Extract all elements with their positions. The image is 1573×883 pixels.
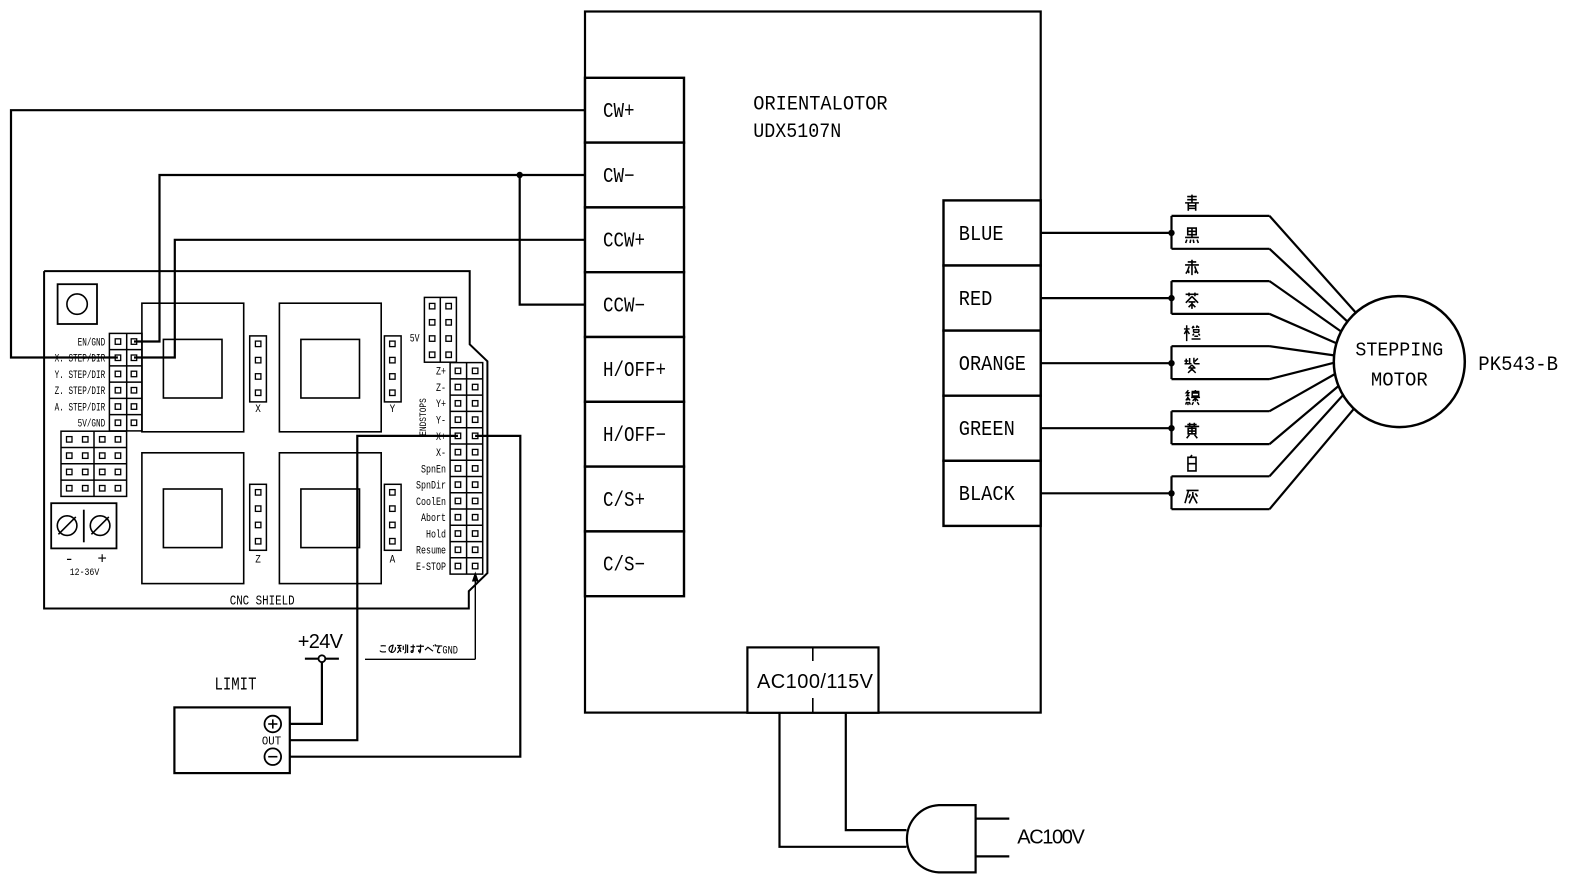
svg-text:+24V: +24V bbox=[298, 631, 344, 653]
svg-text:STEPPING: STEPPING bbox=[1355, 339, 1443, 361]
svg-text:BLUE: BLUE bbox=[959, 222, 1004, 246]
svg-text:GREEN: GREEN bbox=[959, 417, 1015, 441]
svg-text:CNC SHIELD: CNC SHIELD bbox=[230, 593, 295, 609]
svg-text:PK543-B: PK543-B bbox=[1478, 354, 1558, 377]
svg-text:CCW−: CCW− bbox=[603, 294, 645, 318]
svg-text:ORANGE: ORANGE bbox=[959, 352, 1026, 376]
svg-text:BLACK: BLACK bbox=[959, 482, 1015, 506]
svg-text:Y. STEP/DIR: Y. STEP/DIR bbox=[55, 369, 106, 382]
svg-text:12-36V: 12-36V bbox=[70, 566, 100, 578]
svg-text:H/OFF+: H/OFF+ bbox=[603, 359, 666, 383]
svg-text:H/OFF−: H/OFF− bbox=[603, 424, 666, 448]
svg-text:CW−: CW− bbox=[603, 164, 634, 188]
svg-text:Y+: Y+ bbox=[436, 398, 446, 410]
svg-text:EN/GND: EN/GND bbox=[78, 336, 106, 349]
svg-text:SpnDir: SpnDir bbox=[416, 480, 446, 492]
svg-text:AC100V: AC100V bbox=[1017, 827, 1085, 849]
svg-text:A. STEP/DIR: A. STEP/DIR bbox=[55, 401, 106, 414]
svg-text:5V/GND: 5V/GND bbox=[78, 417, 106, 430]
svg-text:X-: X- bbox=[436, 447, 446, 459]
svg-text:Z. STEP/DIR: Z. STEP/DIR bbox=[55, 385, 106, 398]
svg-text:AC100/115V: AC100/115V bbox=[757, 671, 874, 693]
svg-text:CW+: CW+ bbox=[603, 100, 634, 124]
svg-text:GND: GND bbox=[442, 644, 458, 656]
svg-text:RED: RED bbox=[959, 287, 993, 311]
svg-text:ENDSTOPS: ENDSTOPS bbox=[418, 398, 429, 436]
svg-text:ORIENTALOTOR: ORIENTALOTOR bbox=[753, 93, 888, 116]
svg-text:Hold: Hold bbox=[426, 528, 446, 540]
svg-text:Abort: Abort bbox=[421, 512, 446, 524]
svg-text:Z: Z bbox=[255, 555, 261, 567]
svg-text:Y-: Y- bbox=[436, 414, 446, 426]
svg-text:5V: 5V bbox=[410, 333, 420, 345]
svg-text:A: A bbox=[390, 555, 396, 567]
svg-text:CCW+: CCW+ bbox=[603, 229, 645, 253]
svg-text:LIMIT: LIMIT bbox=[215, 675, 257, 695]
svg-text:Resume: Resume bbox=[416, 545, 446, 557]
svg-text:CoolEn: CoolEn bbox=[416, 496, 446, 508]
svg-text:X. STEP/DIR: X. STEP/DIR bbox=[55, 352, 106, 365]
svg-text:E-STOP: E-STOP bbox=[416, 561, 446, 573]
svg-text:Z+: Z+ bbox=[436, 366, 446, 378]
svg-text:OUT: OUT bbox=[262, 736, 281, 749]
svg-text:SpnEn: SpnEn bbox=[421, 463, 446, 475]
svg-text:UDX5107N: UDX5107N bbox=[753, 120, 841, 143]
svg-text:C/S−: C/S− bbox=[603, 553, 645, 577]
svg-text:Y: Y bbox=[390, 405, 396, 417]
svg-text:MOTOR: MOTOR bbox=[1371, 369, 1428, 391]
svg-text:C/S+: C/S+ bbox=[603, 488, 645, 512]
svg-text:Z-: Z- bbox=[436, 382, 446, 394]
svg-text:X: X bbox=[255, 405, 261, 417]
